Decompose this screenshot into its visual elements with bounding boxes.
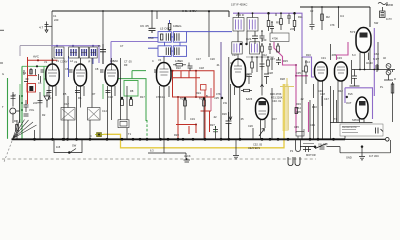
IF transformer T2 can B bbox=[247, 18, 258, 32]
node red dots bbox=[172, 70, 198, 126]
svg-text:C47: C47 bbox=[324, 97, 329, 101]
svg-text:.05: .05 bbox=[97, 44, 101, 48]
components top right x322 bbox=[321, 14, 324, 21]
svg-text:6V6: 6V6 bbox=[348, 92, 353, 96]
wire blue vertical x68.5 bbox=[68, 56, 70, 77]
wire yellow jog bbox=[280, 78, 294, 87]
svg-text:4.7: 4.7 bbox=[39, 26, 44, 30]
switch wafer blob bbox=[29, 86, 33, 91]
wire purple rail y41.5 bbox=[111, 41, 160, 43]
resistor R21 bbox=[168, 24, 171, 31]
svg-text:115: 115 bbox=[56, 145, 61, 149]
svg-text:OSC: OSC bbox=[148, 36, 154, 40]
svg-text:C20: C20 bbox=[210, 57, 215, 61]
svg-text:C1: C1 bbox=[53, 14, 57, 18]
wire blue vertical x93 bbox=[92, 47, 94, 64]
svg-text:6.3: 6.3 bbox=[352, 53, 356, 57]
wire yellow pale x288 bbox=[287, 86, 289, 130]
wire blue osc middle joins bbox=[165, 37, 181, 51]
wire pink vertical x296 bbox=[274, 42, 308, 133]
wire x68 electro lead bbox=[67, 96, 69, 139]
mixer cluster components bbox=[252, 57, 272, 74]
wire purple vertical x111 bbox=[110, 42, 112, 65]
svg-text:R15: R15 bbox=[283, 59, 288, 63]
svg-text:C: C bbox=[152, 59, 154, 63]
svg-text:R33: R33 bbox=[296, 102, 301, 106]
IF transformer T3 can B bbox=[250, 42, 260, 54]
antenna coil box 1 bbox=[54, 47, 64, 58]
left column small parts bbox=[12, 92, 14, 123]
resistor pair under tube3 bbox=[121, 100, 124, 106]
svg-text:G: G bbox=[2, 72, 4, 76]
wire tube10 bottom leads bbox=[360, 119, 365, 123]
svg-text:47K: 47K bbox=[330, 23, 335, 27]
svg-text:R26: R26 bbox=[222, 112, 227, 116]
speaker hook 2 bbox=[295, 157, 300, 166]
svg-text:PL: PL bbox=[380, 85, 384, 89]
wire x253 bbox=[252, 128, 254, 139]
bus stub x34.5 bbox=[34, 130, 36, 139]
svg-text:117V: 117V bbox=[386, 17, 392, 21]
capacitor marks under tubes bbox=[47, 91, 111, 93]
wire x392.5 bbox=[392, 70, 394, 123]
wire AVC corner down x20 bbox=[19, 46, 21, 56]
power loop left bbox=[54, 139, 82, 152]
wire x204 bbox=[203, 97, 205, 139]
resistors right of IF bbox=[267, 21, 270, 27]
wire IF box stubs bbox=[239, 13, 253, 17]
wire yellow main run bbox=[104, 84, 285, 148]
svg-text:R22: R22 bbox=[176, 66, 181, 70]
svg-text:R8: R8 bbox=[130, 89, 134, 93]
wire x185 bbox=[184, 97, 186, 120]
wire blue osc rail y31 bbox=[187, 31, 233, 33]
svg-text:6.3V: 6.3V bbox=[373, 57, 379, 61]
pilot resistor below bus bbox=[320, 147, 325, 149]
wire tube7 leads bbox=[338, 81, 342, 123]
cap near bus x215 bbox=[213, 126, 218, 139]
resistor stack left bbox=[16, 120, 18, 139]
wire red short x189 bbox=[188, 126, 190, 134]
svg-text:6AV6: 6AV6 bbox=[246, 97, 253, 101]
ac line run right bbox=[300, 147, 340, 153]
svg-text:R3: R3 bbox=[48, 96, 52, 100]
node green dots bbox=[21, 95, 23, 111]
svg-text:B: B bbox=[206, 94, 208, 98]
wire x230 arrow bbox=[229, 84, 232, 120]
resistor pair right of IF2 bbox=[280, 19, 283, 25]
svg-text:P1: P1 bbox=[290, 149, 294, 153]
svg-text:C18: C18 bbox=[199, 66, 204, 70]
wire x345 note lead bbox=[344, 136, 346, 139]
svg-text:40-40: 40-40 bbox=[366, 61, 373, 65]
svg-text:R25: R25 bbox=[199, 97, 204, 101]
wire green vertical x22 bbox=[21, 66, 23, 139]
electrolytic block 2 bbox=[88, 108, 101, 121]
svg-text:R7: R7 bbox=[92, 92, 96, 96]
right column small parts bbox=[350, 70, 360, 87]
svg-text:6.3: 6.3 bbox=[150, 149, 154, 153]
wire heater rail y69.5 bbox=[352, 69, 395, 71]
wire red loop main bbox=[173, 71, 215, 139]
antenna coil box 2 bbox=[69, 47, 79, 58]
caps under tube5 bbox=[226, 112, 232, 139]
phone jack run bbox=[148, 153, 186, 160]
tuning gang fan bbox=[13, 120, 37, 139]
svg-text:R9: R9 bbox=[124, 63, 128, 67]
heater loop below bus bbox=[296, 140, 301, 152]
wire green vertical x20 bbox=[19, 84, 21, 123]
svg-text:.02: .02 bbox=[300, 97, 304, 101]
antenna coil box 3 bbox=[80, 47, 89, 58]
tube V4 bbox=[157, 63, 172, 87]
IF transformer T2 can A bbox=[233, 18, 244, 32]
electrolytic block 1 bbox=[61, 108, 75, 121]
coil windings ant boxes bbox=[57, 49, 96, 56]
svg-text:GND: GND bbox=[346, 156, 352, 160]
wire x302 lower bbox=[301, 57, 303, 139]
svg-text:MOTOR: MOTOR bbox=[306, 153, 316, 157]
wire purple right vertical x374 bbox=[373, 28, 375, 96]
svg-text:2ND IF: 2ND IF bbox=[236, 13, 245, 17]
svg-text:470K: 470K bbox=[272, 37, 278, 41]
oscillator coil box top-left bbox=[158, 32, 171, 43]
power entry components top right bbox=[378, 2, 387, 6]
svg-text:C8: C8 bbox=[95, 67, 99, 71]
svg-text:22K: 22K bbox=[290, 27, 295, 31]
svg-text:C60: C60 bbox=[374, 52, 379, 56]
svg-text:.01: .01 bbox=[216, 63, 220, 67]
svg-text:FILT: FILT bbox=[64, 102, 70, 106]
svg-text:R1: R1 bbox=[14, 119, 18, 123]
svg-text:C2: C2 bbox=[310, 9, 314, 13]
svg-text:CONV: CONV bbox=[60, 60, 68, 64]
oscillator coil box bottom-left bbox=[158, 46, 171, 57]
tube V6 bbox=[315, 62, 328, 81]
bus junction dots bbox=[33, 138, 335, 141]
detector diode parts upper bbox=[262, 44, 278, 57]
svg-text:C44: C44 bbox=[296, 106, 301, 110]
wire top-right rail bbox=[300, 7, 370, 27]
wire x313.5 purple resistor lead bbox=[313, 84, 315, 139]
svg-text:C6: C6 bbox=[65, 67, 69, 71]
svg-text:V3: V3 bbox=[230, 61, 234, 65]
wire x92 bbox=[91, 58, 93, 108]
resistor right col bbox=[391, 84, 394, 93]
wire x262 upper bbox=[261, 57, 263, 84]
wire vertical x157 bbox=[156, 11, 158, 19]
ac run lower bbox=[340, 140, 391, 153]
wire x322 bbox=[321, 7, 323, 30]
svg-text:AVC: AVC bbox=[33, 55, 40, 59]
grid caps left of tubes bbox=[41, 70, 158, 72]
wire green vertical x7.5 bbox=[7, 78, 9, 139]
svg-text:C5: C5 bbox=[38, 81, 42, 85]
node red junction bbox=[37, 59, 39, 61]
red small box top bbox=[201, 85, 207, 91]
tube V10 output bbox=[356, 97, 368, 119]
switch on power loop bbox=[70, 149, 76, 153]
diode component bbox=[44, 92, 50, 108]
svg-text:C7: C7 bbox=[120, 44, 124, 48]
wire pink tube7 grid bbox=[337, 42, 349, 60]
wire green stub to tube1 bbox=[44, 78, 48, 80]
resistor in osc box bbox=[161, 34, 163, 40]
svg-text:R27: R27 bbox=[210, 123, 215, 127]
note box contents bbox=[342, 127, 360, 133]
wire tube2/3/4 top stubs bbox=[53, 56, 165, 64]
svg-text:R6: R6 bbox=[78, 96, 82, 100]
svg-text:220: 220 bbox=[33, 101, 38, 105]
coil windings IF T3B bbox=[252, 44, 258, 53]
svg-text:C9 .05: C9 .05 bbox=[140, 24, 149, 28]
antenna coil box 4 bbox=[90, 47, 98, 58]
wire tube5 top lead bbox=[237, 31, 239, 59]
wire pink vertical x211 bbox=[210, 88, 212, 111]
svg-text:R37: R37 bbox=[272, 117, 277, 121]
svg-text:C26: C26 bbox=[248, 124, 253, 128]
tube internal electrodes bbox=[48, 59, 345, 114]
svg-text:.02: .02 bbox=[213, 115, 217, 119]
wire green dashed x147 bbox=[146, 120, 148, 139]
svg-text:C40 .01: C40 .01 bbox=[272, 99, 282, 103]
tube V10 anode fill bbox=[359, 101, 366, 106]
ac switch diagonal bbox=[315, 144, 327, 149]
volume control circle bbox=[10, 108, 16, 114]
tube V8 anode fill bbox=[360, 33, 368, 38]
wire x338.5 bbox=[338, 7, 340, 28]
resistor on pink bbox=[295, 108, 298, 114]
node pink dots bbox=[295, 64, 297, 77]
wire blue resistor lead x169.5 bbox=[169, 20, 171, 31]
wire gray-violet AVC rail left bbox=[20, 45, 51, 47]
svg-text:OUT: OUT bbox=[346, 101, 352, 105]
svg-text:C14: C14 bbox=[102, 109, 107, 113]
svg-text:L5 OSC: L5 OSC bbox=[160, 27, 172, 31]
svg-text:VOL: VOL bbox=[29, 108, 35, 112]
svg-text:C31: C31 bbox=[321, 56, 326, 60]
svg-text:R24: R24 bbox=[196, 91, 201, 95]
coil core osc lower bbox=[166, 47, 179, 55]
node dot x222 bbox=[221, 97, 223, 99]
wire tube9 top lead bbox=[261, 84, 264, 96]
svg-text:PWR: PWR bbox=[386, 3, 394, 7]
svg-text:C19: C19 bbox=[190, 117, 195, 121]
wire red vertical x27.5 bbox=[27, 57, 29, 104]
resistor R22 horizontal bbox=[176, 64, 183, 66]
small arrow up symbol bbox=[259, 129, 265, 137]
svg-text:R30 470K: R30 470K bbox=[270, 92, 282, 96]
component x40 bbox=[38, 92, 43, 139]
resistor pair x185/x204 bbox=[184, 100, 187, 106]
wire purple B+ rail y13 bbox=[233, 13, 314, 77]
wire vertical x103 bbox=[102, 11, 104, 64]
svg-text:B+ 245V: B+ 245V bbox=[185, 9, 197, 13]
capacitor C10 bbox=[100, 44, 106, 64]
svg-text:R9: R9 bbox=[276, 21, 280, 25]
wire tube1 leads bbox=[49, 86, 56, 139]
wire red inner y75.5 bbox=[28, 75, 38, 77]
faint rail y57 bbox=[246, 56, 274, 58]
svg-text:1ST IF 455KC: 1ST IF 455KC bbox=[231, 3, 248, 7]
wire x330-333 triple bbox=[331, 86, 337, 139]
svg-text:V4: V4 bbox=[158, 58, 162, 62]
tube V9 audio bbox=[256, 98, 269, 120]
svg-text:R5: R5 bbox=[63, 92, 67, 96]
wire tube8 leads bbox=[360, 53, 369, 70]
tube V8 rectifier bbox=[356, 28, 371, 53]
ground bus main bbox=[12, 138, 346, 140]
phono motor marks below bbox=[303, 147, 311, 152]
svg-text:C21: C21 bbox=[246, 37, 252, 41]
wire green AVC box left bbox=[22, 66, 48, 96]
ground symbol right bbox=[359, 146, 365, 160]
svg-text:R12: R12 bbox=[262, 53, 267, 57]
node purple dot bbox=[346, 96, 348, 98]
dial cord dashed diagonal bbox=[4, 141, 12, 162]
svg-text:12BE6: 12BE6 bbox=[175, 59, 183, 63]
tube V7 bbox=[335, 62, 348, 81]
svg-text:C46: C46 bbox=[318, 89, 323, 93]
wire x322 lower bbox=[321, 96, 323, 106]
svg-text:R42: R42 bbox=[338, 89, 343, 93]
wire x127 box lead bbox=[126, 86, 128, 139]
svg-text:R40: R40 bbox=[312, 105, 317, 109]
wire vertical x152 bbox=[151, 11, 153, 28]
svg-text:47K: 47K bbox=[216, 92, 221, 96]
small box R network bbox=[270, 33, 289, 42]
svg-text:1K: 1K bbox=[302, 69, 305, 73]
node purple rail dots bbox=[56, 45, 94, 47]
svg-text:JACK: JACK bbox=[184, 154, 191, 158]
svg-text:117 VAC: 117 VAC bbox=[369, 154, 379, 158]
resistor x306 bbox=[305, 60, 307, 84]
wire x90 electro lead bbox=[89, 120, 91, 139]
svg-text:R14: R14 bbox=[305, 60, 310, 64]
svg-text:C35: C35 bbox=[296, 71, 301, 75]
tube V1 bbox=[46, 64, 59, 86]
svg-text:C27: C27 bbox=[270, 57, 275, 61]
node junction x209 bbox=[208, 10, 210, 12]
svg-text:1W: 1W bbox=[223, 101, 227, 105]
svg-text:1MEG: 1MEG bbox=[173, 24, 182, 28]
terminal circle right bbox=[386, 138, 390, 142]
wire top B+ rail bbox=[52, 11, 229, 17]
svg-text:R11: R11 bbox=[298, 15, 303, 19]
svg-text:C33: C33 bbox=[337, 56, 342, 60]
svg-text:R17: R17 bbox=[140, 95, 145, 99]
IF transformer T3 can A bbox=[232, 42, 242, 54]
svg-text:ON-OFF: ON-OFF bbox=[318, 143, 328, 147]
svg-text:1M: 1M bbox=[12, 93, 16, 97]
svg-text:R23: R23 bbox=[180, 97, 185, 101]
svg-text:R16: R16 bbox=[306, 53, 311, 57]
wire purple loop output tube bbox=[345, 88, 373, 119]
svg-text:12BA6: 12BA6 bbox=[110, 59, 118, 63]
wire blue osc left y48 bbox=[148, 47, 158, 49]
coil internals bbox=[56, 20, 258, 57]
bottom dashed separator bbox=[2, 158, 316, 160]
output transformer box bbox=[118, 120, 129, 128]
tube V9 anode fill bbox=[259, 101, 267, 105]
wire x272 bbox=[271, 88, 273, 139]
wire x228.8 bbox=[228, 57, 230, 139]
tube V2 bbox=[74, 64, 87, 86]
wire purple vertical x221 bbox=[220, 42, 222, 98]
audio coupling resistor bbox=[244, 89, 250, 91]
tube V3 bbox=[105, 64, 118, 86]
wire tube5 leads bbox=[235, 87, 240, 139]
ground bus thin right bbox=[345, 138, 385, 140]
wire x312 bbox=[311, 7, 313, 24]
svg-text:220: 220 bbox=[54, 18, 59, 22]
svg-text:PHONO NOTE: PHONO NOTE bbox=[342, 127, 357, 129]
electrolytic X marks bbox=[62, 109, 99, 119]
svg-text:SPKR: SPKR bbox=[352, 118, 359, 122]
svg-text:C4: C4 bbox=[340, 14, 344, 18]
node dot on green edge bbox=[36, 65, 38, 67]
svg-text:C7 .05: C7 .05 bbox=[124, 60, 132, 64]
cluster caps left mid bbox=[24, 100, 29, 116]
tube V5 bbox=[231, 59, 246, 87]
capacitor C18 bbox=[188, 63, 193, 72]
wire right column x378 bbox=[377, 42, 379, 70]
svg-text:R35: R35 bbox=[296, 110, 301, 114]
svg-text:C25: C25 bbox=[214, 96, 219, 100]
svg-text:R31 220K: R31 220K bbox=[271, 96, 283, 100]
wire pink vertical x308.5 bbox=[308, 102, 310, 132]
wire green vertical x103 lower bbox=[102, 84, 104, 99]
svg-text:R2: R2 bbox=[42, 113, 46, 117]
small box above heater loop bbox=[296, 132, 304, 137]
jack symbol bbox=[184, 158, 191, 162]
capacitor C9 bbox=[149, 28, 156, 33]
wire blue osc left y37.5 bbox=[148, 37, 158, 39]
wire x310 lower bbox=[309, 100, 311, 139]
coil windings IF T2A bbox=[236, 20, 242, 30]
wire green middle loop bbox=[117, 71, 146, 121]
coil windings IF T2B bbox=[250, 20, 256, 30]
band switch cluster parts bbox=[24, 68, 41, 82]
yellow wash band bbox=[282, 84, 288, 131]
svg-text:C12: C12 bbox=[108, 95, 113, 99]
node heater rail dots bbox=[359, 69, 379, 71]
svg-text:470: 470 bbox=[156, 95, 161, 99]
wire left edge stub y63 bbox=[0, 62, 3, 64]
wire vertical x52 bbox=[51, 11, 53, 63]
wire red pair x205 bbox=[201, 90, 212, 139]
wire x120.5 upper bbox=[120, 58, 122, 120]
wire x351.5 bbox=[331, 44, 352, 84]
svg-text:C45: C45 bbox=[294, 125, 299, 129]
wire left edge stub y30 bbox=[0, 29, 4, 31]
wire tube3 leads bbox=[108, 86, 116, 139]
svg-text:C22: C22 bbox=[232, 53, 237, 57]
cluster mid top components bbox=[247, 31, 258, 44]
svg-text:R: R bbox=[394, 77, 396, 81]
wire bottom of output stage y122.5 bbox=[330, 122, 373, 124]
wire tube6 leads bbox=[318, 81, 323, 139]
svg-text:R2: R2 bbox=[326, 15, 330, 19]
wire green small box bbox=[124, 81, 138, 97]
oscillator coil box top-right bbox=[173, 32, 186, 43]
svg-text:C: C bbox=[90, 134, 92, 138]
svg-text:SW: SW bbox=[72, 144, 77, 148]
svg-text:R20: R20 bbox=[174, 133, 179, 137]
antenna input 4.7 bbox=[45, 22, 49, 33]
electrolytic cans right stacked bbox=[386, 64, 391, 69]
wire x370 lower bbox=[369, 48, 371, 70]
